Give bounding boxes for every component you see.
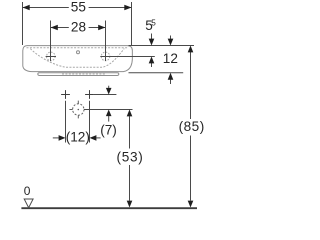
svg-text:(53): (53) xyxy=(117,149,144,164)
svg-text:(12): (12) xyxy=(66,129,90,144)
svg-text:55: 55 xyxy=(71,0,86,15)
svg-text:28: 28 xyxy=(71,19,86,34)
svg-text:12: 12 xyxy=(163,51,178,66)
svg-text:(85): (85) xyxy=(179,119,205,134)
svg-text:(7): (7) xyxy=(100,122,117,137)
svg-text:5: 5 xyxy=(151,19,156,28)
svg-text:0: 0 xyxy=(24,184,31,198)
